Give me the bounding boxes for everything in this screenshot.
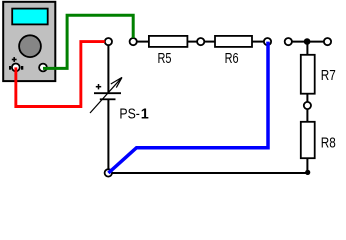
svg-text:R6: R6 <box>225 51 239 67</box>
svg-text:R8: R8 <box>321 136 336 152</box>
svg-text:1: 1 <box>141 106 149 122</box>
svg-text:PS-: PS- <box>119 106 140 122</box>
svg-text:R5: R5 <box>158 51 172 67</box>
svg-text:R7: R7 <box>321 68 336 84</box>
